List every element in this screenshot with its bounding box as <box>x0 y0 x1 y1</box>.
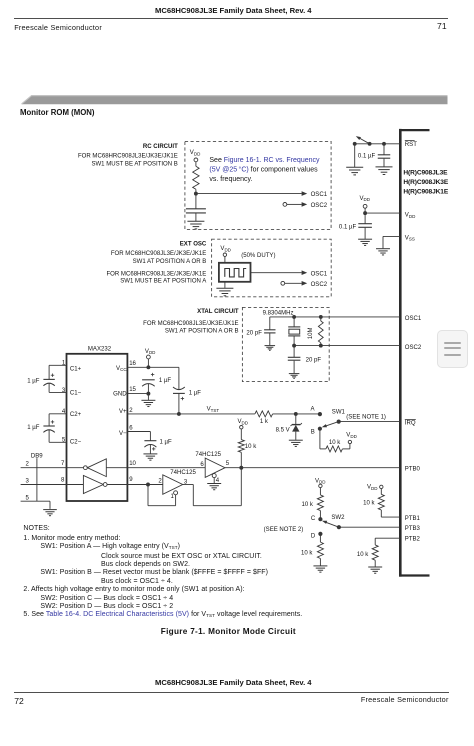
svg-text:C: C <box>311 516 316 522</box>
svg-text:XTAL CIRCUIT: XTAL CIRCUIT <box>197 309 239 315</box>
header right: page number 71 <box>437 22 447 31</box>
svg-text:C2+: C2+ <box>70 412 82 418</box>
zener diode 8.5V <box>276 414 302 440</box>
svg-text:1 µF: 1 µF <box>189 391 202 397</box>
svg-text:1 k: 1 k <box>260 419 269 425</box>
DB9 pin 5 <box>21 496 50 509</box>
reset switch lever <box>356 136 370 144</box>
footer left: page number 72 <box>14 697 24 706</box>
DB9 pin 2 <box>26 462 30 468</box>
wire VDD to pin <box>363 211 400 215</box>
DB9 pin 3 <box>26 479 30 485</box>
svg-text:SW2: SW2 <box>331 515 345 521</box>
wire MAX232 pin10 to 74HC125 pin6 <box>127 467 205 469</box>
svg-text:FOR MC68HC908JL3E/JK3E/JK1E: FOR MC68HC908JL3E/JK3E/JK1E <box>111 251 206 257</box>
crystal frequency label <box>263 311 294 317</box>
svg-text:10 k: 10 k <box>301 502 313 508</box>
switch SW1 <box>311 406 346 435</box>
wire MAX232 pin9 to 74HC125 pin2 <box>127 483 162 487</box>
ground (20pF left) <box>265 346 276 351</box>
pin 5 C2- <box>49 438 82 446</box>
ground (V- cap) <box>143 454 157 460</box>
svg-text:EXT OSC: EXT OSC <box>180 242 207 248</box>
svg-text:OSC1: OSC1 <box>311 272 328 278</box>
svg-text:PTB2: PTB2 <box>405 537 421 543</box>
svg-text:V+: V+ <box>119 409 127 415</box>
74HC125 U3B buffer <box>195 452 229 484</box>
DB9 connector <box>31 453 43 501</box>
pin OSC2 label <box>405 345 422 351</box>
ground (DB9 pin5) <box>43 510 57 516</box>
pin 6 V- <box>119 426 150 441</box>
svg-text:VSS: VSS <box>405 235 415 241</box>
74HC125 U3A buffer <box>158 470 196 500</box>
wire R to node (RC) <box>194 189 198 195</box>
ground (MAX232 pin15) <box>141 394 155 407</box>
section heading <box>20 109 95 117</box>
wire to ground (reset switch) <box>354 144 356 167</box>
svg-text:10 k: 10 k <box>329 440 341 446</box>
svg-text:SW1 AT POSITION A OR B: SW1 AT POSITION A OR B <box>133 259 207 265</box>
svg-text:4: 4 <box>216 478 220 484</box>
wire OSC2 (XTAL bottom rail) <box>292 344 400 348</box>
EXT OSC caption <box>106 242 207 285</box>
capacitor C (RC) <box>186 194 206 221</box>
svg-text:10 k: 10 k <box>363 501 375 507</box>
crystal Y1 <box>288 317 300 346</box>
resistor 10k pull-up (PTB0) <box>238 419 258 468</box>
RC CIRCUIT dashed box <box>185 141 331 229</box>
svg-text:10 k: 10 k <box>245 444 257 450</box>
MAX232 T2 buffer (pin10 to pin7) <box>67 459 137 477</box>
pin PTB2 label <box>405 537 421 543</box>
pin 15 GND <box>113 387 150 398</box>
svg-text:VDD: VDD <box>360 196 371 202</box>
svg-text:7: 7 <box>61 461 65 467</box>
ground (VDD cap) <box>358 239 372 245</box>
header rule <box>14 18 448 19</box>
RC note text <box>209 157 320 183</box>
wire VTST rail <box>127 413 254 415</box>
note 1 ref <box>346 414 386 420</box>
resistor 1k <box>255 411 273 425</box>
VDD node (RC) <box>190 150 201 166</box>
svg-text:74HC125: 74HC125 <box>170 470 196 476</box>
svg-text:SW1 MUST BE AT POSITION B: SW1 MUST BE AT POSITION B <box>91 162 177 168</box>
ground (VSS) <box>376 249 390 255</box>
svg-text:10 k: 10 k <box>357 552 369 558</box>
footer right: publisher <box>361 696 449 703</box>
capacitor 1uF (V+) <box>173 387 201 416</box>
svg-text:8: 8 <box>61 478 65 484</box>
XTAL CIRCUIT caption <box>143 309 239 334</box>
section runner bar <box>0 85 474 115</box>
wire SW2 to PTB3 <box>339 526 400 528</box>
EXT OSC dashed box <box>212 239 332 297</box>
oscillator box (EXT OSC) <box>219 263 251 282</box>
resistor 10k (PTB2 pull-down) <box>357 538 400 567</box>
svg-text:9: 9 <box>129 477 133 483</box>
svg-text:6: 6 <box>200 462 204 468</box>
resistor 10k (SW1 B) <box>320 429 358 452</box>
svg-text:See Figure 16-1. RC vs. Freque: See Figure 16-1. RC vs. Frequency <box>209 157 320 164</box>
ground (reset switch) <box>346 167 363 175</box>
svg-text:15: 15 <box>129 387 136 393</box>
resistor 10k (PTB1 pull-up) <box>363 485 400 517</box>
svg-text:OSC1: OSC1 <box>405 316 422 322</box>
pin 1 C1+ <box>49 361 82 373</box>
svg-text:9.8304MHz: 9.8304MHz <box>263 311 294 317</box>
svg-text:vs. frequency.: vs. frequency. <box>209 176 252 183</box>
ground (U3B enable) <box>207 478 221 490</box>
svg-text:16: 16 <box>129 361 136 367</box>
svg-text:3: 3 <box>62 388 66 394</box>
svg-text:C1+: C1+ <box>70 366 82 372</box>
svg-text:GND: GND <box>113 392 127 398</box>
OSC2 stub (RC) <box>283 202 328 209</box>
OSC2 stub (EXT OSC) <box>281 281 328 288</box>
svg-text:H(R)C908JL3E: H(R)C908JL3E <box>403 169 448 176</box>
resistor 10k (SW2 D pull-down) <box>301 534 323 566</box>
svg-text:A: A <box>311 406 316 412</box>
svg-text:(SEE NOTE 1): (SEE NOTE 1) <box>346 414 386 420</box>
pin 3 C1- <box>49 388 82 397</box>
pin VDD label <box>405 213 416 219</box>
junction dots RST <box>353 142 386 146</box>
svg-text:D: D <box>311 533 316 539</box>
resistor R (RC) <box>193 166 199 189</box>
svg-text:VDD: VDD <box>190 150 201 156</box>
svg-text:RC CIRCUIT: RC CIRCUIT <box>143 144 178 150</box>
svg-text:2: 2 <box>158 479 162 485</box>
RC CIRCUIT caption <box>78 144 178 168</box>
svg-text:V−: V− <box>119 431 127 437</box>
svg-text:(SEE NOTE 2): (SEE NOTE 2) <box>264 527 304 533</box>
resistor 10M <box>308 317 323 346</box>
svg-text:PTB3: PTB3 <box>405 526 421 532</box>
svg-text:1 µF: 1 µF <box>27 425 40 431</box>
MAX232 U2 box <box>67 346 128 501</box>
svg-text:5: 5 <box>26 496 30 502</box>
capacitor C1 1uF <box>27 365 55 392</box>
VTST label <box>207 407 220 413</box>
svg-text:VDD: VDD <box>220 246 231 252</box>
ground (EXT OSC) <box>216 282 233 296</box>
wire DB9 pin3 to MAX232 pin8 <box>21 478 67 485</box>
svg-text:FOR MC68HRC908JL3E/JK3E/JK1E: FOR MC68HRC908JL3E/JK3E/JK1E <box>106 272 206 278</box>
resistor 10k (SW2 C pull-up) <box>301 478 326 519</box>
svg-text:IRQ: IRQ <box>405 421 416 427</box>
ground (RST cap) <box>376 167 393 175</box>
MCU U1 H(R)C908JL3E box <box>399 129 449 577</box>
capacitor 0.1uF (VDD) <box>339 213 372 239</box>
svg-text:SW1 AT POSITION A OR B: SW1 AT POSITION A OR B <box>165 328 239 334</box>
svg-text:74HC125: 74HC125 <box>195 452 221 458</box>
capacitor 0.1uF (RST) <box>358 144 390 167</box>
duty cycle label <box>241 253 275 259</box>
header left: publisher <box>14 24 102 31</box>
VDD node (MAX232) <box>145 349 156 367</box>
svg-text:SW1: SW1 <box>332 409 346 415</box>
capacitor C2 1uF <box>27 414 55 443</box>
footer running title <box>155 679 312 687</box>
wire to OSC1 arrow (EXT OSC) <box>251 270 328 277</box>
svg-text:H(R)C908JK1E: H(R)C908JK1E <box>403 188 448 195</box>
wire RST net <box>355 143 400 145</box>
wire SW1 to IRQ <box>339 421 400 423</box>
svg-text:C2−: C2− <box>70 440 82 446</box>
svg-text:5: 5 <box>226 461 230 467</box>
pin PTB1 label <box>405 516 421 522</box>
svg-text:10: 10 <box>129 461 136 467</box>
svg-text:MAX232: MAX232 <box>88 346 112 352</box>
wire U3A enable loop <box>148 485 176 506</box>
svg-text:0.1 µF: 0.1 µF <box>339 225 357 231</box>
wire U3A output to PTB0 rail <box>183 468 242 506</box>
svg-text:3: 3 <box>26 479 30 485</box>
svg-text:PTB1: PTB1 <box>405 516 421 522</box>
note 2 ref <box>264 527 304 533</box>
pin OSC1 label <box>405 316 422 322</box>
footer rule <box>14 692 449 693</box>
svg-text:SW1 MUST BE AT POSITION A: SW1 MUST BE AT POSITION A <box>120 279 207 285</box>
wire VSS to ground <box>383 236 400 248</box>
svg-text:2: 2 <box>26 462 30 468</box>
VDD supply node <box>360 196 371 213</box>
pin RST label <box>405 140 417 147</box>
wire DB9 pin2 to MAX232 pin7 <box>21 461 67 468</box>
svg-text:1: 1 <box>171 494 175 500</box>
svg-text:OSC1: OSC1 <box>311 192 328 198</box>
svg-text:1 µF: 1 µF <box>159 378 172 384</box>
pin IRQ label <box>405 419 416 426</box>
svg-text:(5V @25 °C) for component valu: (5V @25 °C) for component values <box>209 166 318 174</box>
svg-text:20 pF: 20 pF <box>246 331 262 337</box>
svg-text:VDD: VDD <box>405 213 416 219</box>
ground (PTB2) <box>368 567 382 573</box>
capacitor 1uF (VCC) <box>142 373 171 394</box>
svg-text:1 µF: 1 µF <box>160 440 173 446</box>
svg-text:0.1 µF: 0.1 µF <box>358 154 376 160</box>
ground (RC) <box>187 221 204 229</box>
pin PTB0 label <box>405 466 421 472</box>
svg-text:C1−: C1− <box>70 390 82 396</box>
svg-text:8.5 V: 8.5 V <box>276 428 290 434</box>
XTAL CIRCUIT dashed box <box>242 307 329 381</box>
wire 1k to node A <box>273 412 320 416</box>
pin 4 C2+ <box>49 409 82 418</box>
wire OSC1 (XTAL top rail) <box>270 315 400 319</box>
svg-text:FOR MC68HC908JL3E/JK3E/JK1E: FOR MC68HC908JL3E/JK3E/JK1E <box>143 321 238 327</box>
svg-text:OSC2: OSC2 <box>405 345 422 351</box>
pin PTB3 label <box>405 526 421 532</box>
svg-text:FOR MC68HRC908JL3E/JK3E/JK1E: FOR MC68HRC908JL3E/JK3E/JK1E <box>78 153 178 159</box>
wire PTB0 rail <box>225 466 400 470</box>
svg-text:(50% DUTY): (50% DUTY) <box>241 253 275 259</box>
svg-text:5: 5 <box>62 438 66 444</box>
wire to OSC1 arrow (RC) <box>196 191 328 198</box>
svg-text:2: 2 <box>129 408 133 414</box>
svg-text:VDD: VDD <box>145 349 156 355</box>
svg-text:OSC2: OSC2 <box>311 282 328 288</box>
svg-text:20 pF: 20 pF <box>306 358 322 364</box>
svg-text:H(R)C908JK3E: H(R)C908JK3E <box>403 179 448 186</box>
svg-text:RST: RST <box>405 142 417 148</box>
viewer overlay icon <box>437 330 468 368</box>
ground (zener) <box>289 440 303 446</box>
pin 2 V+ <box>119 408 133 415</box>
figure caption <box>161 628 296 636</box>
header running title <box>155 7 312 15</box>
VDD node (EXT OSC) <box>220 246 231 263</box>
switch SW2 <box>311 515 345 540</box>
MAX232 R2 buffer (pin8 to pin9) <box>67 476 134 494</box>
svg-text:PTB0: PTB0 <box>405 466 421 472</box>
svg-text:1 µF: 1 µF <box>27 378 40 384</box>
svg-text:10 k: 10 k <box>301 551 313 557</box>
capacitor 20pF (bottom) <box>288 346 322 374</box>
svg-text:6: 6 <box>129 426 133 432</box>
pin VSS label <box>405 235 415 241</box>
capacitor 20pF (left) <box>246 317 275 345</box>
wire VCC to V+ cap <box>148 367 179 389</box>
svg-text:VDD: VDD <box>346 433 357 439</box>
svg-text:VCC: VCC <box>116 366 127 372</box>
svg-text:OSC2: OSC2 <box>311 203 328 209</box>
pin 16 VCC <box>116 361 150 372</box>
svg-text:10M: 10M <box>308 327 314 339</box>
svg-text:VTST: VTST <box>207 407 220 413</box>
svg-text:VDD: VDD <box>315 478 326 484</box>
svg-text:VDD: VDD <box>367 485 378 491</box>
ground (20pF bottom) <box>289 374 300 379</box>
svg-text:VDD: VDD <box>238 419 249 425</box>
capacitor 1uF (V-) <box>144 440 172 454</box>
svg-text:B: B <box>311 430 315 436</box>
ground (SW2 D) <box>313 566 327 572</box>
